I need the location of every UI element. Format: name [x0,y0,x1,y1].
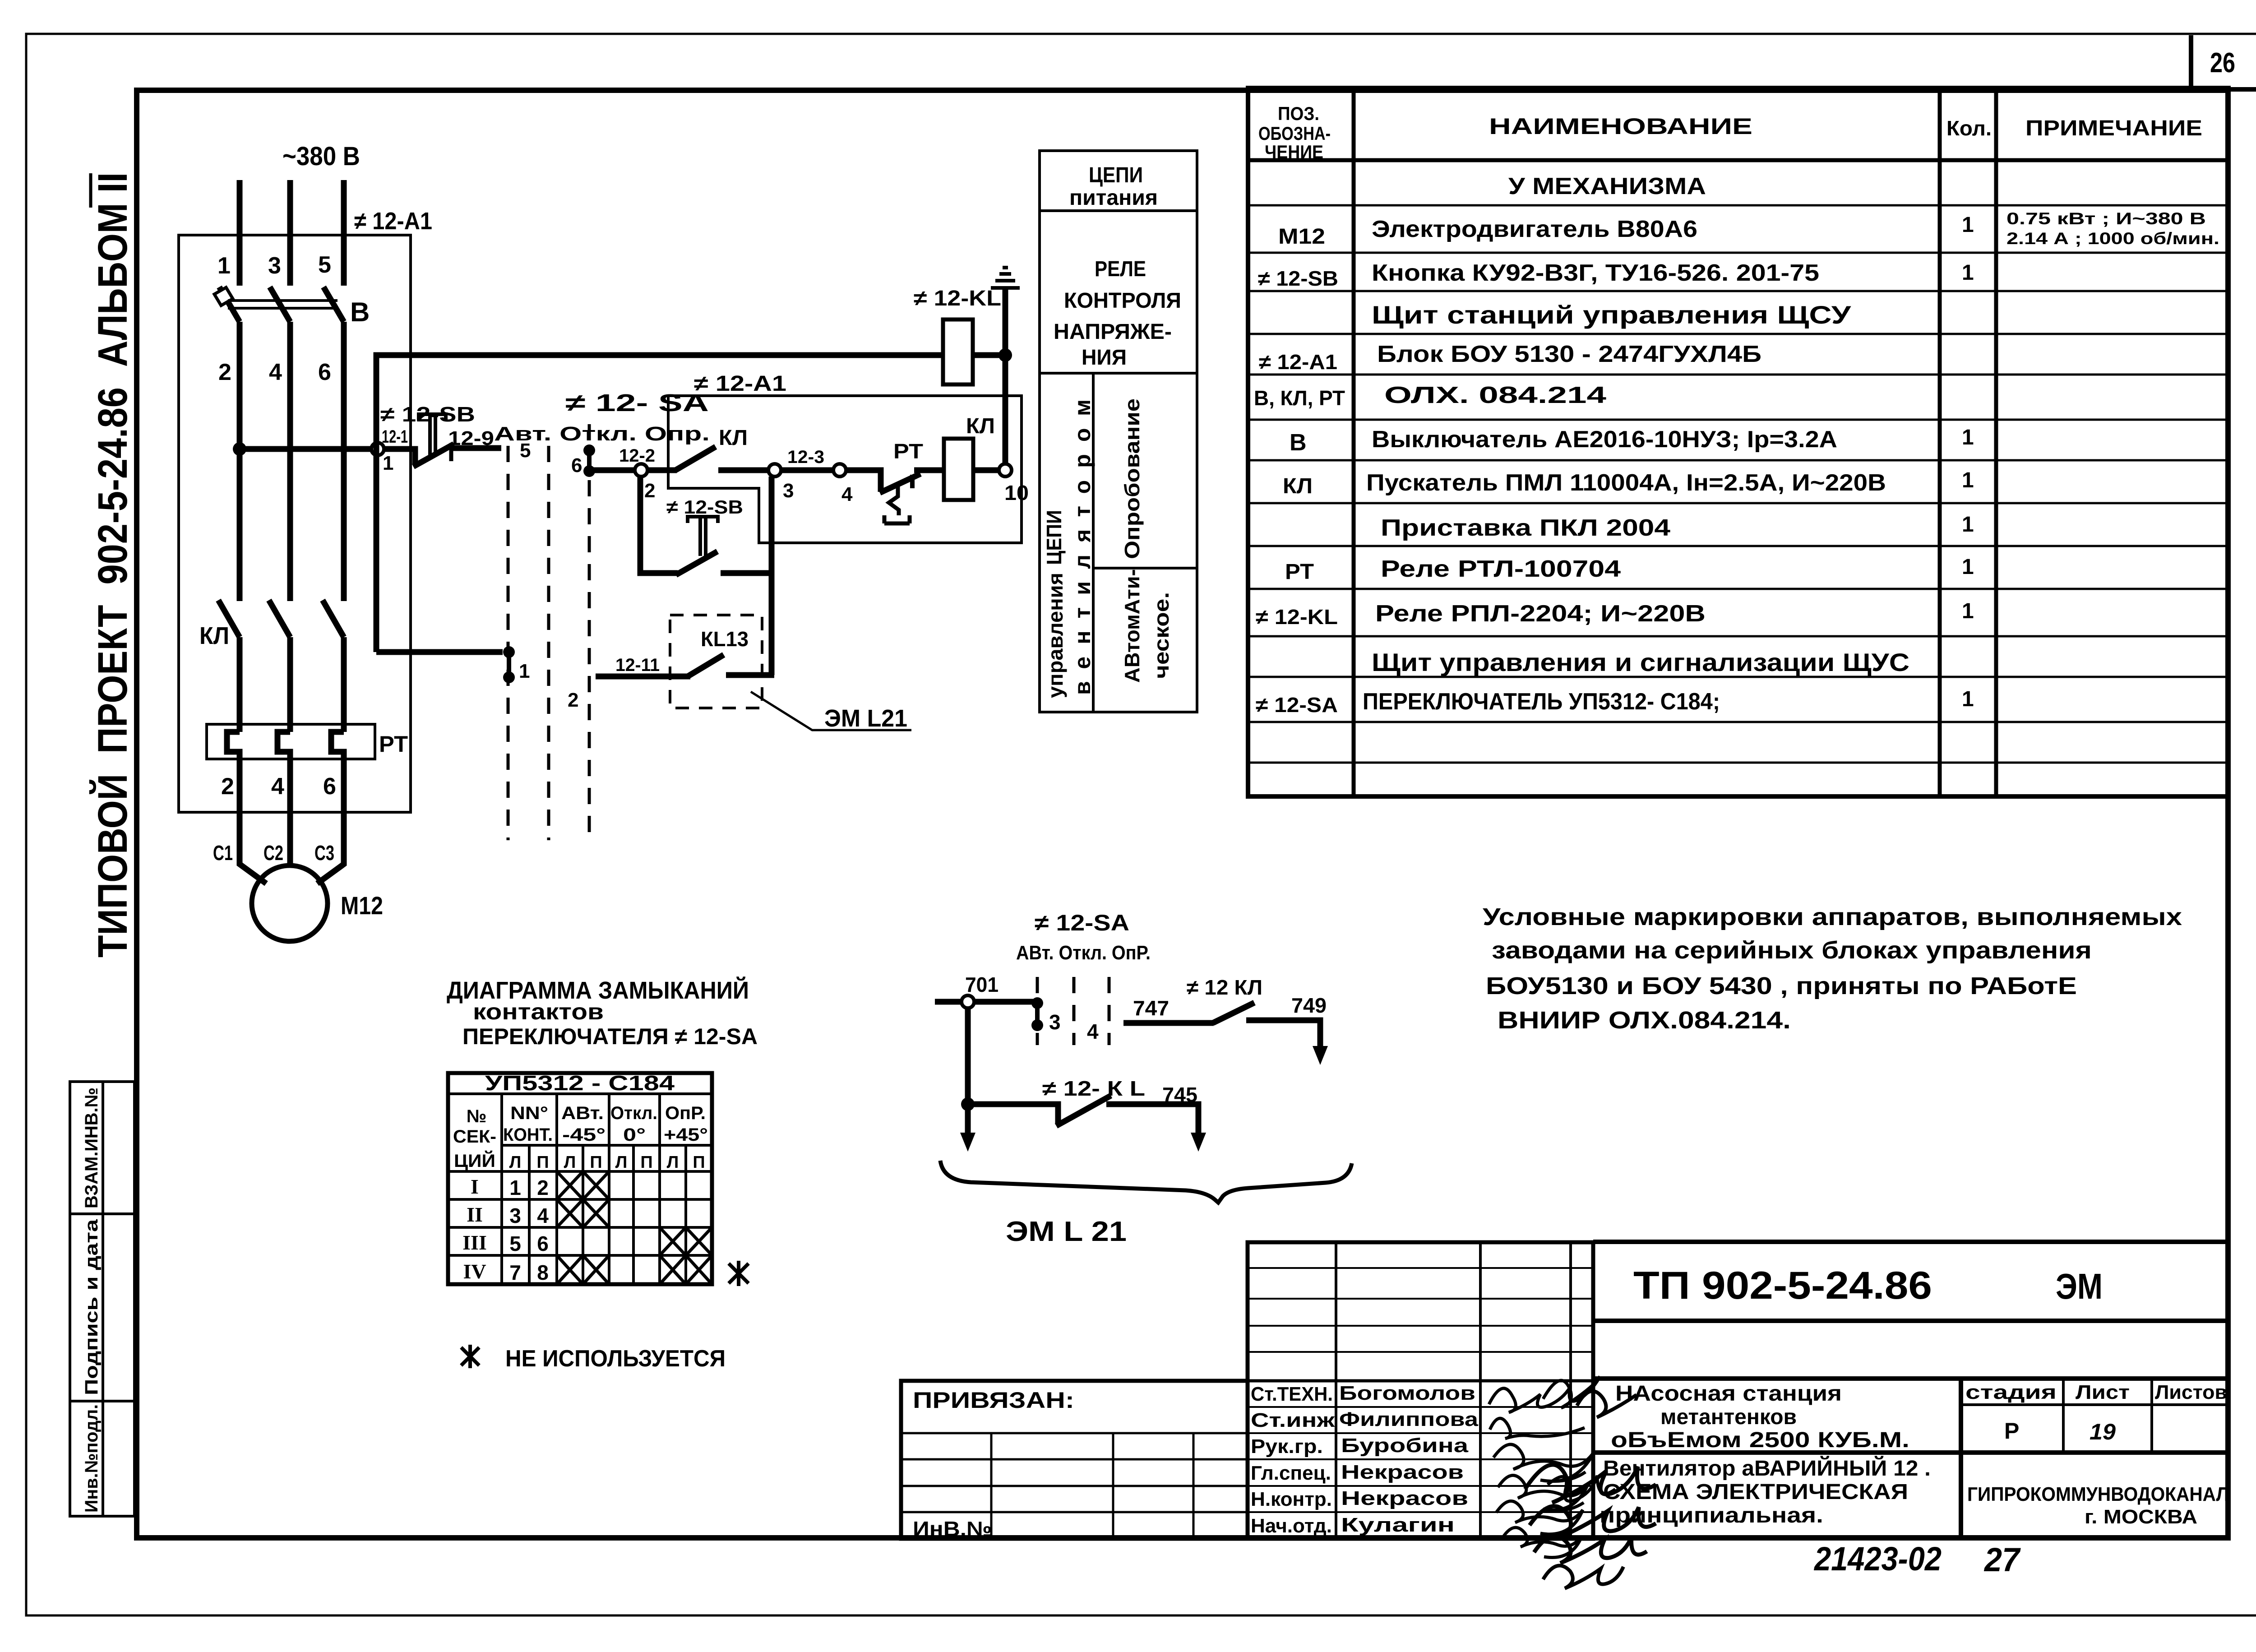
wire phase tap to terminal 12-1 [240,446,372,452]
svg-text:КЛ: КЛ [199,622,229,649]
svg-text:21423-02: 21423-02 [1813,1540,1942,1578]
svg-text:4: 4 [1087,1020,1099,1043]
title block revision grid outer [1248,1242,1593,1539]
title block revision grid rows [1248,1268,1593,1512]
svg-text:Богомолов: Богомолов [1339,1382,1475,1404]
svg-text:Л: Л [509,1153,522,1172]
svg-text:6: 6 [318,359,331,385]
contactor coil KL [944,439,973,500]
svg-text:~380 В: ~380 В [282,142,360,171]
wire RT contact to KL coil [914,467,944,473]
contactor KL pole 2 contact [269,600,290,637]
wire C3 to motor [317,759,344,884]
callout leader EM L21 [751,692,911,730]
block A1 power outline [179,235,411,812]
svg-text:Вентилятор аВАРИЙНЫЙ 12 .: Вентилятор аВАРИЙНЫЙ 12 . [1603,1456,1931,1481]
svg-text:ОБОЗНА-: ОБОЗНА- [1258,123,1331,144]
block A1 control outline [668,396,1022,543]
title block personnel names [1339,1382,1479,1536]
svg-text:≠ 12- К L: ≠ 12- К L [1042,1077,1145,1100]
circuit function box divider 2 [1040,372,1197,375]
button SB stop contact blade [413,444,454,467]
title block personnel labels [1251,1383,1335,1537]
motor M12 circle [252,865,328,941]
svg-text:НАсосная станция: НАсосная станция [1615,1382,1842,1406]
wire phase L1 to contactor [237,322,243,601]
svg-text:≠ 12-SВ: ≠ 12-SВ [380,403,475,426]
svg-text:≠ 12-А1: ≠ 12-А1 [354,208,432,235]
SA diagram X marks [557,1171,712,1284]
svg-text:Буробина: Буробина [1341,1435,1469,1457]
svg-text:СЕК-: СЕК- [453,1127,496,1147]
svg-text:ИнВ.№: ИнВ.№ [913,1517,992,1541]
svg-text:Ст.ТЕХН.: Ст.ТЕХН. [1251,1383,1333,1405]
terminal 4 circle [833,464,846,477]
title block left box outline [901,1381,1248,1539]
svg-text:5: 5 [318,252,331,278]
svg-text:ЦЕПИ: ЦЕПИ [1042,510,1066,565]
wire KL relay to ground rail [973,352,1005,358]
title block main cells [1593,1242,2228,1539]
svg-text:Некрасов: Некрасов [1341,1487,1468,1509]
svg-text:питания: питания [1069,186,1158,210]
svg-text:Опробование: Опробование [1120,398,1144,559]
svg-text:5: 5 [520,440,531,462]
button SB start actuator [688,517,718,556]
svg-text:≠ 12-SA: ≠ 12-SA [1256,693,1338,717]
svg-text:ГИПРОКОММУНВОДОКАНАЛ: ГИПРОКОММУНВОДОКАНАЛ [1967,1483,2229,1505]
svg-text:КЛ: КЛ [1283,474,1313,498]
svg-text:ПОЗ.: ПОЗ. [1278,103,1319,124]
wire 745 with arrow [1106,1104,1198,1137]
svg-text:С2: С2 [264,841,283,865]
switch SA section divider dashed 3 [588,424,591,840]
svg-text:745: 745 [1162,1083,1197,1106]
svg-text:СХЕМА ЭЛЕКТРИЧЕСКАЯ: СХЕМА ЭЛЕКТРИЧЕСКАЯ [1603,1480,1908,1504]
svg-text:П: П [590,1153,602,1172]
svg-text:12-2: 12-2 [619,446,655,466]
svg-text:26: 26 [2210,47,2235,79]
svg-text:стадия: стадия [1965,1381,2057,1403]
svg-text:1: 1 [1962,261,1974,285]
wire 12-9 [451,445,501,451]
overline over II of АЛЬБОМ II [89,173,92,208]
svg-text:3: 3 [783,480,794,502]
thermal relay RT box [207,724,375,759]
switch SA lower section contact (closed) [503,646,515,683]
wire 701 down branch [965,1007,971,1137]
svg-text:Рук.гр.: Рук.гр. [1251,1435,1323,1458]
node ground rail junction [999,348,1012,362]
svg-text:Кулагин: Кулагин [1341,1514,1455,1536]
svg-text:С1: С1 [213,841,233,865]
svg-text:ЦЕПИ: ЦЕПИ [1089,163,1143,187]
switch SA section divider dashed 1 [507,446,510,840]
circuit function box divider 1 [1040,209,1197,212]
svg-text:2: 2 [537,1176,549,1199]
svg-text:Подпись и дата: Подпись и дата [82,1219,102,1395]
svg-text:В, КЛ, РТ: В, КЛ, РТ [1254,386,1345,410]
svg-text:Щит управления и сигнализации: Щит управления и сигнализации ЩУС [1372,648,1909,676]
wire control top rail [376,355,943,652]
svg-text:≠ 12-KL: ≠ 12-KL [914,287,1001,310]
svg-text:2.14 А ; 1000 об/мин.: 2.14 А ; 1000 об/мин. [2006,229,2219,248]
svg-text:≠ 12-А1: ≠ 12-А1 [694,372,786,396]
svg-text:Электродвигатель В80А6: Электродвигатель В80А6 [1372,216,1697,242]
button SB stop actuator [419,414,446,455]
contact KL13 dashed box [670,615,762,708]
svg-text:С3: С3 [314,841,334,865]
SA diagram table ЛП band line [502,1144,712,1147]
svg-text:1: 1 [1962,426,1974,449]
contactor KL aux contact wire left [647,467,677,473]
SA diagram table outer [448,1073,712,1284]
wire KL aux to terminal 3 [718,467,769,473]
svg-text:12-11: 12-11 [615,655,660,675]
wire lower left branch to SA section [376,649,503,655]
svg-text:5: 5 [509,1232,521,1255]
svg-text:В: В [350,297,370,327]
svg-text:Щит станций управления ЩСУ: Щит станций управления ЩСУ [1372,301,1851,329]
svg-text:М12: М12 [1278,225,1325,249]
svg-text:ОпР.: ОпР. [665,1103,706,1123]
arrow 749 [1313,1046,1328,1065]
svg-text:П: П [693,1153,705,1172]
wire to KL contact [968,1104,1058,1124]
svg-text:+45°: +45° [664,1125,708,1145]
terminal 3 circle [768,464,781,477]
svg-text:-45°: -45° [562,1125,606,1145]
breaker B pole 1 blade [219,287,240,322]
svg-text:1: 1 [1962,513,1974,537]
svg-text:10: 10 [1004,481,1029,504]
svg-text:АВт. Откл. ОпР.: АВт. Откл. ОпР. [1016,942,1151,964]
svg-text:М12: М12 [341,891,383,920]
svg-text:12-9: 12-9 [448,427,494,449]
svg-text:≠ 12-SA: ≠ 12-SA [1035,910,1129,935]
svg-text:III: III [462,1231,487,1254]
svg-text:Р: Р [2004,1418,2019,1444]
EM L21 SA contact (closed) [1031,997,1043,1031]
svg-text:701: 701 [965,973,999,996]
svg-text:Блок БОУ 5130 - 2474ГУХЛ4Б: Блок БОУ 5130 - 2474ГУХЛ4Б [1377,341,1761,367]
title block left box columns [991,1433,1193,1539]
svg-text:6: 6 [537,1232,549,1255]
svg-text:6: 6 [571,454,582,477]
svg-text:контактов: контактов [473,999,604,1024]
svg-text:4: 4 [269,359,282,385]
svg-text:КL13: КL13 [701,627,749,651]
breaker B pole 3 blade [324,287,344,322]
svg-text:1: 1 [383,452,393,474]
circuit function box column divider [1092,373,1095,712]
SA diagram table row lines [448,1171,712,1255]
svg-text:Реле РПЛ-2204; И~220В: Реле РПЛ-2204; И~220В [1375,601,1706,627]
svg-text:НЕ ИСПОЛЬЗУЕТСЯ: НЕ ИСПОЛЬЗУЕТСЯ [505,1346,726,1372]
title block revision grid columns [1336,1242,1571,1539]
svg-text:оБъЕмом 2500 КУБ.М.: оБъЕмом 2500 КУБ.М. [1611,1428,1909,1452]
breaker B handle flag [214,287,233,305]
svg-text:ТИПОВОЙ ПРОЕКТ 902-5-24.86: ТИПОВОЙ ПРОЕКТ 902-5-24.86 АЛЬБОМ II [89,172,136,958]
svg-text:2: 2 [218,359,231,385]
svg-text:РЕЛЕ: РЕЛЕ [1095,257,1146,281]
wire 747 [1123,1020,1214,1026]
wire phase L1 incoming [237,180,243,286]
relay RT release symbol [884,486,910,523]
svg-text:1: 1 [1962,468,1974,492]
SA diagram Л П subheader [509,1153,705,1172]
svg-text:4: 4 [841,483,853,505]
svg-text:1: 1 [519,660,530,682]
svg-text:У МЕХАНИЗМА: У МЕХАНИЗМА [1508,173,1706,199]
wire pole 2 to thermal relay [287,637,293,732]
svg-text:заводами на серийных блоках: заводами на серийных блоках управления [1492,937,2092,964]
svg-text:НИЯ: НИЯ [1082,346,1127,370]
svg-text:≠ 12 КЛ: ≠ 12 КЛ [1187,976,1262,999]
svg-text:7: 7 [509,1261,521,1284]
svg-text:4: 4 [537,1204,549,1227]
EM L21 node 701 wire [935,999,1033,1005]
svg-text:1: 1 [1962,555,1974,579]
svg-text:Реле РТЛ-100704: Реле РТЛ-100704 [1381,556,1621,582]
svg-text:УП5312 - С184: УП5312 - С184 [485,1071,675,1095]
svg-text:Н.контр.: Н.контр. [1251,1488,1332,1510]
svg-text:Откл.: Откл. [610,1103,657,1123]
svg-text:≠ 12-SВ: ≠ 12-SВ [1258,267,1338,290]
wire terminal 4 to RT contact [846,470,881,492]
svg-text:Ст.инж: Ст.инж [1251,1409,1335,1431]
wire phase L3 incoming [341,180,347,286]
svg-text:12-1: 12-1 [382,427,408,447]
wire 12-2 [589,467,635,473]
svg-text:ЭМ L 21: ЭМ L 21 [1006,1216,1127,1247]
svg-text:12-3: 12-3 [787,447,824,467]
button SB stop fixed contact hook [449,448,453,461]
svg-text:≠ 12-SВ: ≠ 12-SВ [666,496,743,518]
svg-text:1: 1 [1962,599,1974,623]
svg-text:ЭМ: ЭМ [2056,1266,2103,1306]
svg-text:1: 1 [509,1176,521,1199]
switch SA section I contact (closed) [583,444,595,477]
svg-text:ЭМ L21: ЭМ L21 [824,705,907,732]
contactor KL pole 3 contact [323,600,344,637]
svg-text:3: 3 [509,1204,521,1227]
parts table column line 1 [1352,88,1356,796]
svg-text:ЦИЙ: ЦИЙ [454,1150,495,1171]
svg-text:II: II [467,1203,483,1226]
svg-text:≠ 12-KL: ≠ 12-KL [1256,605,1338,629]
svg-text:1: 1 [217,253,231,279]
svg-text:IV: IV [463,1260,486,1283]
stamp column boxes (Взам.инв.№ / Подпись и дата / Инв.№подл.) [70,1082,134,1516]
svg-text:№: № [467,1106,487,1126]
wire 12-3 [781,467,834,473]
switch SA section divider dashed 2 [547,446,550,840]
node junction on 701 branch [961,1097,975,1111]
wire vertical node 3 to KL13 [769,477,775,675]
SA diagram table header band [448,1092,712,1095]
terminal 12-1 circle [371,443,384,455]
parts table column line 2 [1938,88,1942,796]
svg-text:Инв.№подл.: Инв.№подл. [82,1404,102,1513]
svg-text:≠ 12-А1: ≠ 12-А1 [1259,350,1337,374]
sheet number cell 26 [2189,35,2193,90]
svg-text:Филиппова: Филиппова [1339,1408,1479,1430]
svg-text:Выключатель АЕ2016-10НУЗ; Iр: Выключатель АЕ2016-10НУЗ; Iр=3.2А [1372,426,1837,453]
svg-text:8: 8 [537,1261,549,1284]
title block left box rows [901,1433,1248,1512]
thermal relay RT heater pole 2 [277,732,290,759]
brace under EM L21 group [940,1161,1352,1203]
wire 12-11 [596,674,690,680]
wire pole 3 to thermal relay [341,637,347,732]
svg-text:2: 2 [221,773,234,800]
wire 749 with arrow [1246,1020,1320,1051]
svg-text:6: 6 [323,773,336,800]
wire KL13 to vertical rail [726,672,774,678]
svg-text:П: П [536,1153,549,1172]
thermal relay RT heater pole 1 [227,732,240,759]
EM L21 node 701 circle [962,995,974,1008]
note star [461,1345,479,1368]
asterisk mark [729,1261,749,1286]
wire C2 to motor [287,759,293,867]
wire pole 1 to thermal relay [237,637,243,732]
svg-text:принципиальная.: принципиальная. [1600,1504,1823,1527]
svg-text:ЧЕНИЕ: ЧЕНИЕ [1265,141,1323,162]
svg-text:ПРИВЯЗАН:: ПРИВЯЗАН: [913,1388,1074,1413]
parts table row lines [1248,205,2228,763]
svg-text:2: 2 [568,689,578,711]
wire ground rail [1003,289,1008,464]
svg-text:РТ: РТ [379,731,408,757]
svg-text:4: 4 [271,773,284,800]
contact ≠12-KL blade [1056,1096,1111,1126]
relay RT break contact blade [880,474,920,493]
svg-text:747: 747 [1133,996,1169,1020]
button SB start contact blade [676,551,717,575]
svg-text:0°: 0° [623,1125,646,1145]
svg-text:Кнопка КУ92-В3Г, ТУ16-526. 2: Кнопка КУ92-В3Г, ТУ16-526. 201-75 [1372,260,1819,286]
svg-text:П: П [640,1153,652,1172]
svg-text:ПРИМЕЧАНИЕ: ПРИМЕЧАНИЕ [2025,116,2202,140]
svg-text:АВт.: АВт. [561,1103,604,1123]
terminal 2 circle [635,464,647,477]
svg-text:Лист: Лист [2076,1381,2130,1403]
svg-text:2: 2 [644,480,655,502]
svg-text:27: 27 [1983,1541,2021,1578]
svg-text:РТ: РТ [893,440,923,463]
svg-text:Приставка ПКЛ 2004: Приставка ПКЛ 2004 [1381,515,1670,541]
svg-text:Л: Л [564,1153,576,1172]
arrow down from 701 branch [960,1133,975,1152]
svg-text:Кол.: Кол. [1946,116,1992,140]
svg-text:КОНТ.: КОНТ. [503,1125,553,1145]
svg-text:НАИМЕНОВАНИЕ: НАИМЕНОВАНИЕ [1489,114,1752,139]
svg-text:Листов: Листов [2155,1381,2227,1403]
svg-text:управления: управления [1044,573,1067,698]
svg-text:РТ: РТ [1285,560,1314,584]
wire SB stop feed [384,449,415,465]
contactor KL pole 1 contact [218,600,240,637]
parts table outer [1248,88,2228,796]
wire phase L2 incoming [287,180,293,286]
svg-text:КОНТРОЛЯ: КОНТРОЛЯ [1064,289,1181,313]
svg-text:ВНИИР ОЛХ.084.214.: ВНИИР ОЛХ.084.214. [1498,1007,1791,1034]
svg-text:ВЗАМ.ИНВ.№: ВЗАМ.ИНВ.№ [82,1087,102,1208]
breaker B linkage crossbar [228,299,337,302]
svg-text:Л: Л [615,1153,628,1172]
thermal relay RT heater pole 3 [331,732,344,759]
svg-text:метантенков: метантенков [1660,1405,1797,1429]
svg-text:1: 1 [1962,687,1974,711]
wire KL coil to terminal 10 [973,467,999,473]
title block stage grid [1961,1379,2228,1453]
svg-text:749: 749 [1291,994,1327,1017]
svg-text:I: I [471,1175,479,1198]
svg-text:19: 19 [2090,1419,2116,1444]
svg-text:НАПРЯЖЕ-: НАПРЯЖЕ- [1054,320,1172,344]
svg-text:ПЕРЕКЛЮЧАТЕЛЯ ≠ 12-SA: ПЕРЕКЛЮЧАТЕЛЯ ≠ 12-SA [462,1024,758,1049]
svg-text:ТП 902-5-24.86: ТП 902-5-24.86 [1633,1264,1932,1307]
svg-text:Гл.спец.: Гл.спец. [1251,1462,1331,1484]
contact KL13 blade [688,655,724,676]
svg-text:В: В [1290,430,1307,456]
svg-text:БОУ5130 и БОУ 5430 , приняты: БОУ5130 и БОУ 5430 , приняты по РАБотЕ [1486,972,2077,1000]
svg-text:3: 3 [1049,1010,1061,1034]
node phase tap junction [233,442,246,456]
relay KL voltage coil [943,319,973,384]
parts table column line 3 [1994,88,1998,796]
svg-text:Л: Л [667,1153,679,1172]
svg-text:1: 1 [1962,213,1974,237]
svg-text:Некрасов: Некрасов [1341,1461,1464,1483]
circuit function box outline [1040,151,1197,712]
svg-text:Нач.отд.: Нач.отд. [1251,1515,1332,1537]
svg-text:≠ 12- SA: ≠ 12- SA [565,389,709,416]
EM L21 SA dashed dividers [1037,977,1109,1045]
button SB start branch wire [640,477,678,573]
svg-text:КЛ: КЛ [719,426,748,450]
svg-text:ческое.: ческое. [1150,592,1173,679]
SA diagram table column lines [502,1094,686,1284]
terminal 10 circle [999,464,1012,477]
svg-text:АВтомАти-: АВтомАти- [1120,569,1144,683]
arrow 745 [1191,1133,1206,1152]
svg-text:NN°: NN° [510,1103,548,1123]
relay RT contact fixed tick [910,475,915,488]
svg-text:ОЛХ. 084.214: ОЛХ. 084.214 [1384,382,1606,408]
contact ≠12 КЛ blade [1213,1003,1254,1023]
svg-text:0.75 кВт ; И~380 В: 0.75 кВт ; И~380 В [2006,209,2206,228]
contactor KL aux contact blade [675,447,716,470]
svg-text:3: 3 [268,253,281,279]
circuit function box right divider [1093,567,1197,569]
svg-text:КЛ: КЛ [966,414,995,438]
wire C1 to motor [240,759,266,884]
svg-text:Условные маркировки аппара: Условные маркировки аппаратов, выполняем… [1483,903,2182,930]
svg-text:Пускатель ПМЛ 110004А, Iн=2.5А: Пускатель ПМЛ 110004А, Iн=2.5А, И~220В [1366,470,1886,496]
svg-text:ПЕРЕКЛЮЧАТЕЛЬ УП5312- С184;: ПЕРЕКЛЮЧАТЕЛЬ УП5312- С184; [1363,689,1720,715]
svg-text:г. МОСКВА: г. МОСКВА [2085,1506,2197,1528]
wire SB start to node 3 [721,570,774,576]
breaker B pole 2 blade [270,287,290,322]
title block signatures [1489,1376,1656,1588]
wire phase L3 to contactor [341,322,347,601]
ground symbol [991,268,1020,288]
wire phase L2 to contactor [287,322,293,601]
parts table header line [1248,158,2228,162]
